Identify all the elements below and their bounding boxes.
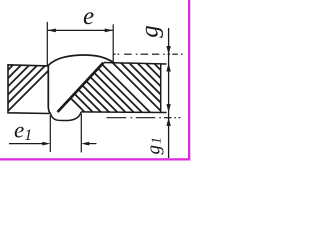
g bottom arrowhead (up, tip at plate top surface) [166, 63, 170, 71]
right plate bottom edge [81, 111, 167, 114]
dimension e: left arrowhead [47, 29, 56, 33]
dimension e: left extension line [46, 22, 48, 66]
right plate hatching [35, 58, 223, 124]
left plate hatching [0, 64, 55, 114]
weld cap bead outline [47, 55, 113, 66]
dimension e1: left line segment [9, 143, 44, 145]
bottom centerline (dash-dot at root level) [107, 117, 181, 119]
right plate top edge [104, 63, 167, 65]
g top arrowhead (down, tip at cap peak line) [166, 46, 170, 54]
bevel groove face (thick fusion line) [58, 63, 104, 112]
dimension e: right arrowhead [105, 29, 114, 33]
svg-text:g: g [137, 25, 164, 38]
weld root bulge outline [51, 112, 82, 121]
top centerline (dash-dot at cap peak level) [114, 53, 183, 55]
magenta page edge bottom [0, 158, 190, 160]
right plate right edge [160, 64, 162, 113]
dimension e: right extension line [112, 24, 114, 62]
g1 top arrowhead (down, tip at plate bottom surface) [166, 104, 170, 112]
dimension e1: left arrowhead (points right, tip at left ext) [42, 142, 50, 146]
weld left edge [48, 66, 50, 114]
svg-text:e: e [83, 3, 94, 30]
g1 bottom arrowhead (up, tip at root line) [166, 118, 170, 126]
dimension e1: right arrowhead (points left, tip at right ext) [81, 142, 89, 146]
dimension e1: right extension line [80, 114, 82, 153]
dimension e1: left extension line [49, 115, 51, 152]
dimension e: line [47, 29, 113, 31]
magenta page edge right [188, 0, 190, 161]
g/g1 shared vertical dimension line [168, 28, 170, 158]
dimension e1: right line segment [88, 143, 97, 145]
left plate outline [8, 65, 50, 114]
